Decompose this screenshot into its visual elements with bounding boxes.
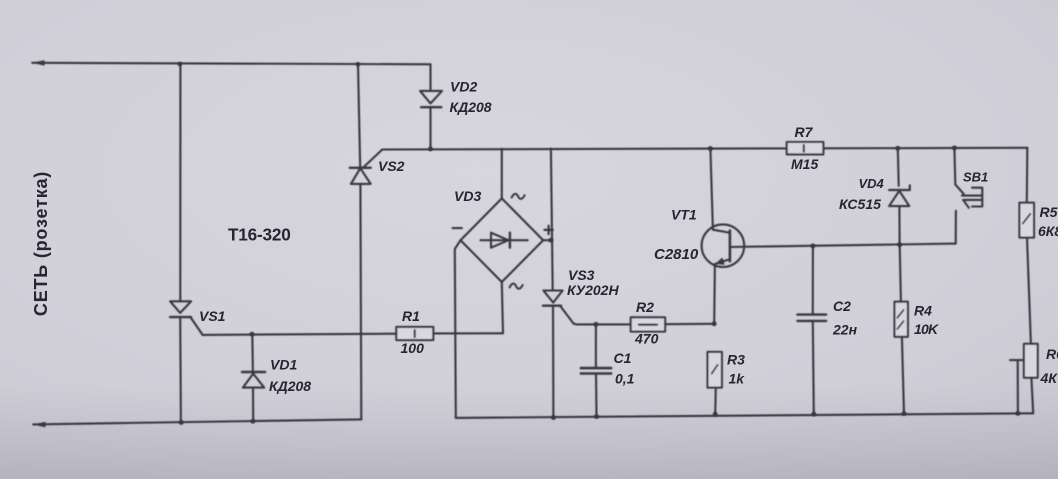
wire: mains top rail bbox=[32, 63, 430, 65]
thyristor VS2 bbox=[350, 64, 383, 419]
svg-text:R1: R1 bbox=[402, 308, 420, 324]
node: C2 bottom rail junction bbox=[811, 412, 816, 417]
svg-text:4К7: 4К7 bbox=[1040, 370, 1058, 386]
zener diode VD4 bbox=[889, 148, 910, 244]
svg-text:R3: R3 bbox=[727, 352, 745, 368]
wire: VS3 gate to R2 bbox=[574, 323, 631, 326]
wire: R5 to R6 bbox=[1027, 238, 1031, 344]
svg-text:10K: 10K bbox=[914, 321, 939, 337]
node: C2 base wire junction bbox=[811, 244, 816, 249]
arrow: mains top left bbox=[32, 60, 45, 66]
svg-text:VD4: VD4 bbox=[859, 176, 885, 191]
node: VS3 bottom rail junction bbox=[551, 415, 556, 420]
node: VD1 gate wire junction bbox=[250, 332, 255, 337]
svg-text:КД208: КД208 bbox=[269, 378, 311, 394]
arrow: mains bottom left bbox=[33, 422, 46, 428]
node: C1 bottom rail junction bbox=[594, 414, 599, 419]
svg-text:R5: R5 bbox=[1040, 204, 1058, 220]
svg-text:R7: R7 bbox=[795, 124, 814, 140]
svg-text:VD3: VD3 bbox=[454, 188, 481, 204]
wire: bridge top to control rail bbox=[501, 149, 503, 199]
resistor R3 bbox=[708, 352, 722, 414]
node: bridge plus junction bbox=[549, 238, 554, 243]
diode VD2 bbox=[420, 64, 442, 149]
capacitor C2 bbox=[797, 246, 826, 414]
svg-text:R6: R6 bbox=[1046, 346, 1058, 362]
svg-text:VT1: VT1 bbox=[671, 207, 697, 223]
bridge '+' mark bbox=[544, 226, 552, 234]
svg-text:22н: 22н bbox=[832, 322, 858, 338]
wire: bridge right to + node bbox=[543, 239, 551, 241]
svg-text:КД208: КД208 bbox=[450, 99, 492, 115]
svg-text:R4: R4 bbox=[914, 303, 932, 319]
bridge '-' mark bbox=[453, 227, 462, 229]
node: VT1 collector junction bbox=[708, 146, 713, 151]
svg-text:VS1: VS1 bbox=[199, 308, 226, 324]
node: R4 bottom rail junction bbox=[902, 411, 907, 416]
wire: top rail right corner down to R5 bbox=[1026, 148, 1029, 203]
node: VD4 top junction bbox=[895, 146, 900, 151]
resistor R7 bbox=[787, 142, 824, 154]
wire: VS1 gate to R1 bbox=[203, 334, 397, 335]
node: VS1 top rail junction bbox=[178, 62, 183, 67]
resistor R4 bbox=[895, 302, 908, 414]
bridge '~' top mark bbox=[512, 194, 525, 199]
wire: DC bottom rail bbox=[456, 413, 1033, 418]
diode VD1 bbox=[242, 334, 265, 421]
resistor R5 bbox=[1019, 203, 1034, 238]
wire: VD4 node to R4 bbox=[900, 245, 901, 302]
node: VD4 base wire junction bbox=[897, 242, 902, 247]
svg-text:VS3: VS3 bbox=[568, 267, 595, 283]
svg-text:Т16-320: Т16-320 bbox=[228, 224, 291, 244]
svg-text:VD2: VD2 bbox=[450, 79, 477, 95]
svg-text:0,1: 0,1 bbox=[615, 371, 635, 387]
wire: mains bottom rail bbox=[33, 419, 361, 424]
resistor R2 bbox=[631, 317, 665, 331]
svg-text:R2: R2 bbox=[636, 299, 654, 315]
node: VS2 top rail junction bbox=[356, 62, 361, 67]
svg-text:6К8: 6К8 bbox=[1038, 223, 1058, 239]
thyristor VS3 bbox=[543, 149, 574, 418]
svg-text:М15: М15 bbox=[791, 156, 818, 172]
potentiometer R6 bbox=[1024, 344, 1038, 414]
wire: R1 to bridge bottom bbox=[433, 332, 503, 334]
svg-text:100: 100 bbox=[401, 340, 425, 356]
svg-text:SB1: SB1 bbox=[963, 170, 988, 185]
svg-text:470: 470 bbox=[634, 331, 659, 347]
node: R6 wiper bottom rail junction bbox=[1016, 411, 1021, 416]
wire: control rail right segment bbox=[823, 147, 1027, 150]
svg-text:C1: C1 bbox=[614, 350, 632, 366]
svg-text:1k: 1k bbox=[729, 371, 746, 387]
svg-text:C2: C2 bbox=[833, 298, 851, 314]
svg-text:КУ202Н: КУ202Н bbox=[567, 282, 619, 298]
node: VD1 bottom rail junction bbox=[251, 419, 256, 424]
wire: VT1 base to SB1 bbox=[730, 244, 956, 247]
svg-text:VD1: VD1 bbox=[270, 357, 297, 373]
svg-text:VS2: VS2 bbox=[378, 158, 405, 174]
node: R3 bottom rail junction bbox=[713, 412, 718, 417]
switch SB1 bbox=[954, 148, 982, 244]
wire: control rail left segment bbox=[382, 148, 786, 149]
wire: R2 to VT1 emitter node bbox=[665, 323, 714, 326]
bridge '~' bottom mark bbox=[510, 284, 523, 289]
node: C1 top junction bbox=[594, 322, 599, 327]
svg-text:C2810: C2810 bbox=[654, 246, 699, 263]
node: VS1 bottom rail junction bbox=[179, 420, 184, 425]
capacitor C1 bbox=[581, 324, 611, 416]
transistor VT1 bbox=[702, 149, 745, 324]
resistor R1 bbox=[396, 327, 433, 340]
svg-text:СЕТЬ (розетка): СЕТЬ (розетка) bbox=[31, 171, 51, 316]
node: R2 / VT1 emitter junction bbox=[712, 321, 717, 326]
wire: R6 wiper tap bbox=[1010, 360, 1024, 413]
thyristor VS1 bbox=[170, 64, 203, 423]
node: SB1 top junction bbox=[952, 146, 957, 151]
bridge rectifier VD3 bbox=[461, 198, 544, 282]
svg-text:КС515: КС515 bbox=[839, 196, 881, 212]
wire: bridge left corner down to DC rail bbox=[455, 240, 461, 418]
node: VD2 cathode / VS2 gate junction bbox=[428, 147, 433, 152]
wire: bridge bottom corner down to R1 wire bbox=[502, 282, 503, 333]
